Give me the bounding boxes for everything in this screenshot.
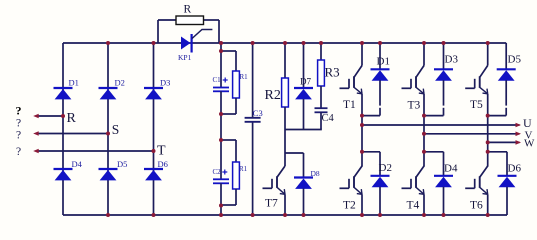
port arrow phase T <box>33 149 39 154</box>
label V <box>525 130 533 142</box>
wire output V line <box>424 133 520 135</box>
wire D4 inverter bottom lead <box>443 187 445 215</box>
junction on top bus at x=153.5 <box>152 41 156 45</box>
wire C2 bottom lead <box>220 183 222 215</box>
svg-text:D4: D4 <box>444 163 458 175</box>
resistor R3 <box>318 60 325 86</box>
junction on top bus at x=285.0 <box>283 41 287 45</box>
wire D3-D6 column <box>153 43 155 215</box>
svg-text:T2: T2 <box>343 200 356 212</box>
wire T4 emitter lead <box>423 194 425 215</box>
transistor T4 (IGBT) <box>402 166 425 194</box>
junction leg1 emitter node <box>360 114 364 118</box>
wire top DC+ bus <box>63 42 506 44</box>
junction on top bus at x=362.0 <box>360 41 364 45</box>
wire output U line <box>362 124 520 126</box>
wire phase S line <box>36 133 108 135</box>
label ? input char 1 <box>16 104 22 118</box>
wire T1 collector lead <box>361 43 363 66</box>
svg-text:R: R <box>184 4 192 16</box>
wire T5 collector lead <box>487 43 489 66</box>
junction on top bus at x=380.0 <box>378 41 382 45</box>
wire D5 inverter top lead <box>505 43 507 69</box>
svg-text:T5: T5 <box>470 99 483 111</box>
label C3 <box>253 108 263 118</box>
wire T6 emitter lead <box>487 194 489 215</box>
junction on top bus at x=321.0 <box>319 41 323 45</box>
junction on bottom bus at x=285.0 <box>283 213 287 217</box>
svg-text:?: ? <box>16 130 21 142</box>
svg-text:R1: R1 <box>239 165 248 173</box>
port arrow phase R <box>33 114 39 119</box>
wire R3-C4 link <box>320 86 322 108</box>
wire D1 inverter bottom lead <box>379 80 381 115</box>
label R (bypass resistor) <box>184 4 192 16</box>
port arrow W <box>516 140 522 145</box>
wire T3 emitter lead <box>423 94 425 116</box>
diode D5 (rectifier) <box>99 169 118 180</box>
wire T4 collector lead <box>423 152 425 167</box>
wire D7 top lead <box>303 43 305 88</box>
junction on bottom bus at x=153.5 <box>152 213 156 217</box>
capacitor C1 <box>213 88 229 92</box>
wire R1 lower bottom lead <box>221 189 236 205</box>
capacitor C2 <box>213 179 229 183</box>
wire D3 inverter bottom lead <box>443 80 445 115</box>
junction on bottom bus at x=303.5 <box>302 213 306 217</box>
svg-text:D3: D3 <box>160 78 170 88</box>
polarity + of C1 <box>223 78 228 83</box>
wire output W line <box>488 141 520 143</box>
svg-text:R: R <box>67 111 77 126</box>
label W <box>524 138 535 150</box>
polarity + of C2 <box>222 170 227 175</box>
label D6 (inverter) <box>508 163 522 175</box>
wire D3 inverter top lead <box>443 43 445 69</box>
label R3 <box>325 65 340 80</box>
label D2 (inverter) <box>379 162 392 174</box>
junction leg2 emitter node <box>422 114 426 118</box>
label ? input char 2 <box>16 118 21 130</box>
svg-text:U: U <box>523 116 532 130</box>
junction V output node <box>422 132 426 136</box>
junction on bottom bus at x=443.5 <box>442 213 446 217</box>
transistor T1 (IGBT) <box>340 66 363 94</box>
svg-text:D5: D5 <box>117 159 127 169</box>
diode D1 (inverter) <box>371 69 390 80</box>
resistor R1 (lower) <box>233 162 240 189</box>
junction on bottom bus at x=221.0 <box>219 213 223 217</box>
svg-text:R1: R1 <box>240 73 249 81</box>
svg-text:T6: T6 <box>470 200 483 212</box>
thyristor KP1 <box>181 34 192 53</box>
label phase R <box>67 111 77 126</box>
svg-text:?: ? <box>16 118 21 130</box>
svg-text:D1: D1 <box>377 56 390 68</box>
wire leg1 midpoint column <box>361 116 363 152</box>
junction leg3 lower collector node <box>486 150 490 154</box>
label D3 (inverter) <box>445 54 459 66</box>
junction C1/R1 midpoint <box>219 112 223 116</box>
label D7 <box>300 76 311 86</box>
junction C2/R1 bottom tap <box>219 204 223 208</box>
svg-text:C2: C2 <box>213 168 222 176</box>
wire R1 lower top tap <box>221 140 236 162</box>
resistor R (bypass) <box>176 16 204 25</box>
svg-text:?: ? <box>16 146 21 158</box>
label C1 <box>213 76 222 84</box>
label T7 <box>265 198 278 210</box>
wire C3 column <box>252 43 254 215</box>
diode D5 (inverter) <box>497 69 516 80</box>
svg-text:D6: D6 <box>508 163 522 175</box>
label ? input char 3 <box>16 130 21 142</box>
junction leg3 emitter node <box>486 114 490 118</box>
label phase S <box>112 122 120 137</box>
label R2 <box>265 88 281 103</box>
wire R2 top lead <box>284 43 286 78</box>
diode D3 (inverter) <box>434 69 453 80</box>
label ? input char 4 <box>16 146 21 158</box>
transistor T7 (IGBT) <box>263 166 286 194</box>
wire D6 inverter bottom lead <box>506 187 508 215</box>
diode D1 (rectifier) <box>54 88 73 99</box>
junction phase R node <box>61 114 65 118</box>
wire phase R line <box>36 115 63 117</box>
diode D8 <box>294 178 313 189</box>
label D1 (rectifier) <box>69 78 79 88</box>
junction on bottom bus at x=252.6 <box>251 213 255 217</box>
wire C1 column upper <box>220 43 222 88</box>
diode D3 (rectifier) <box>144 88 163 99</box>
wire T6 cell top <box>488 151 507 153</box>
junction C1 top tap <box>219 49 223 53</box>
wire T2 collector lead <box>361 152 363 167</box>
label T6 <box>470 200 483 212</box>
wire T5 emitter lead <box>487 94 489 116</box>
svg-text:D8: D8 <box>311 169 320 178</box>
wire T2 emitter lead <box>361 194 363 215</box>
wire D7 bottom lead <box>303 99 305 130</box>
svg-text:KP1: KP1 <box>178 53 192 62</box>
diode D2 (rectifier) <box>99 88 118 99</box>
label D5 (rectifier) <box>117 159 127 169</box>
junction on top bus at x=303.5 <box>302 41 306 45</box>
label T1 <box>343 99 356 111</box>
svg-text:T1: T1 <box>343 99 356 111</box>
wire node to D8 branch <box>285 153 304 178</box>
junction on bottom bus at x=380.0 <box>378 213 382 217</box>
resistor R2 <box>282 78 289 107</box>
label D5 (inverter) <box>508 54 522 66</box>
wire T4 cell top <box>424 151 444 153</box>
svg-text:?: ? <box>16 104 22 118</box>
label R1 (lower) <box>239 165 248 173</box>
wire T1 cell bottom <box>362 115 380 117</box>
label D6 (rectifier) <box>158 159 168 169</box>
svg-text:T: T <box>157 144 166 159</box>
wire bottom DC- bus <box>63 214 507 216</box>
svg-text:C1: C1 <box>213 76 222 84</box>
label D4 (rectifier) <box>72 159 83 169</box>
label D1 (inverter) <box>377 56 390 68</box>
wire D5 inverter bottom lead <box>505 80 507 115</box>
wire C4 bottom lead <box>320 112 322 129</box>
junction leg2 lower collector node <box>422 150 426 154</box>
svg-text:D7: D7 <box>300 76 311 86</box>
svg-text:D3: D3 <box>445 54 459 66</box>
wire D4 inverter top lead <box>443 152 445 176</box>
label C2 <box>213 168 222 176</box>
svg-text:R2: R2 <box>265 88 281 103</box>
label D8 <box>311 169 320 178</box>
wire D2 inverter bottom lead <box>379 187 381 215</box>
wire leg2 midpoint column <box>423 116 425 152</box>
svg-text:R3: R3 <box>325 65 340 80</box>
wire T3 cell bottom <box>424 115 444 117</box>
label T5 <box>470 99 483 111</box>
diode D6 (inverter) <box>498 176 517 187</box>
wire D8 bottom lead <box>303 189 305 216</box>
port arrow U <box>516 123 522 128</box>
junction on top bus at x=252.6 <box>251 41 255 45</box>
svg-text:T4: T4 <box>407 200 420 212</box>
diode D4 (rectifier) <box>54 169 73 180</box>
junction on top bus at x=487.7 <box>486 41 490 45</box>
wire D2 inverter top lead <box>379 152 381 176</box>
junction on bottom bus at x=362.0 <box>360 213 364 217</box>
wire R1 top tap <box>221 51 236 71</box>
wire leg3 midpoint column <box>487 116 489 152</box>
transistor T5 (IGBT) <box>465 66 488 94</box>
svg-text:C4: C4 <box>322 113 335 124</box>
label D4 (inverter) <box>444 163 458 175</box>
wire R1 upper bottom lead <box>221 98 236 114</box>
transistor T6 (IGBT) <box>465 166 488 194</box>
label T3 <box>408 100 421 112</box>
resistor R (bypass) right lead <box>204 20 220 43</box>
wire T1 emitter lead <box>361 94 363 116</box>
diode D7 <box>294 88 313 99</box>
wire D2-D5 column <box>107 43 109 215</box>
wire R3 top lead <box>320 43 322 60</box>
wire D6 inverter top lead <box>506 152 508 176</box>
resistor R1 (upper) <box>233 71 240 98</box>
junction on bottom bus at x=487.7 <box>486 213 490 217</box>
label C4 <box>322 113 335 124</box>
junction phase T node <box>152 149 156 153</box>
svg-text:C3: C3 <box>253 108 263 118</box>
wire T2 cell top <box>362 151 380 153</box>
junction on bottom bus at x=424.0 <box>422 213 426 217</box>
port arrow V <box>516 132 522 137</box>
junction phase S node <box>106 132 110 136</box>
wire D1 inverter top lead <box>379 43 381 69</box>
wire T5 cell bottom <box>488 115 507 117</box>
wire node to T7 collector <box>284 130 286 167</box>
svg-text:W: W <box>524 138 535 150</box>
svg-text:T3: T3 <box>408 100 421 112</box>
junction midpoint lower tap <box>219 138 223 142</box>
transistor T3 (IGBT) <box>402 66 425 94</box>
wire C1-C2 midpoint column <box>220 91 222 179</box>
port arrow phase S <box>33 131 39 136</box>
wire T6 collector lead <box>487 152 489 167</box>
wire chopper node line <box>285 129 322 131</box>
wire left edge / D1-D4 column <box>62 43 64 215</box>
junction leg1 lower collector node <box>360 150 364 154</box>
svg-text:D5: D5 <box>508 54 522 66</box>
wire phase T line <box>36 150 154 152</box>
label T4 <box>407 200 420 212</box>
transistor T2 (IGBT) <box>340 166 363 194</box>
thyristor KP1 gate lead <box>192 30 212 39</box>
svg-text:D6: D6 <box>158 159 168 169</box>
label T2 <box>343 200 356 212</box>
label D2 (rectifier) <box>115 78 125 88</box>
wire R2 bottom lead <box>284 107 286 130</box>
svg-text:S: S <box>112 122 120 137</box>
junction U output node <box>360 123 364 127</box>
label D3 (rectifier) <box>160 78 170 88</box>
diode D6 (rectifier) <box>144 169 163 180</box>
junction W output node <box>486 140 490 144</box>
wire T7 emitter lead <box>284 194 286 215</box>
junction on bottom bus at x=108.0 <box>106 213 110 217</box>
junction on top bus at x=108.0 <box>106 41 110 45</box>
svg-text:T7: T7 <box>265 198 278 210</box>
diode D4 (inverter) <box>434 176 453 187</box>
junction on top bus at x=221.0 <box>219 41 223 45</box>
label U <box>523 116 532 130</box>
label phase T <box>157 144 166 159</box>
label R1 (upper) <box>240 73 249 81</box>
svg-text:D4: D4 <box>72 159 83 169</box>
capacitor C4 <box>315 108 328 112</box>
svg-text:D2: D2 <box>115 78 125 88</box>
junction on top bus at x=443.5 <box>442 41 446 45</box>
label KP1 <box>178 53 192 62</box>
capacitor C3 <box>245 118 261 122</box>
junction on top bus at x=424.0 <box>422 41 426 45</box>
svg-text:D2: D2 <box>379 162 392 174</box>
resistor R (bypass) left lead <box>158 20 176 43</box>
svg-text:D1: D1 <box>69 78 79 88</box>
diode D2 (inverter) <box>371 176 390 187</box>
wire T3 collector lead <box>423 43 425 66</box>
